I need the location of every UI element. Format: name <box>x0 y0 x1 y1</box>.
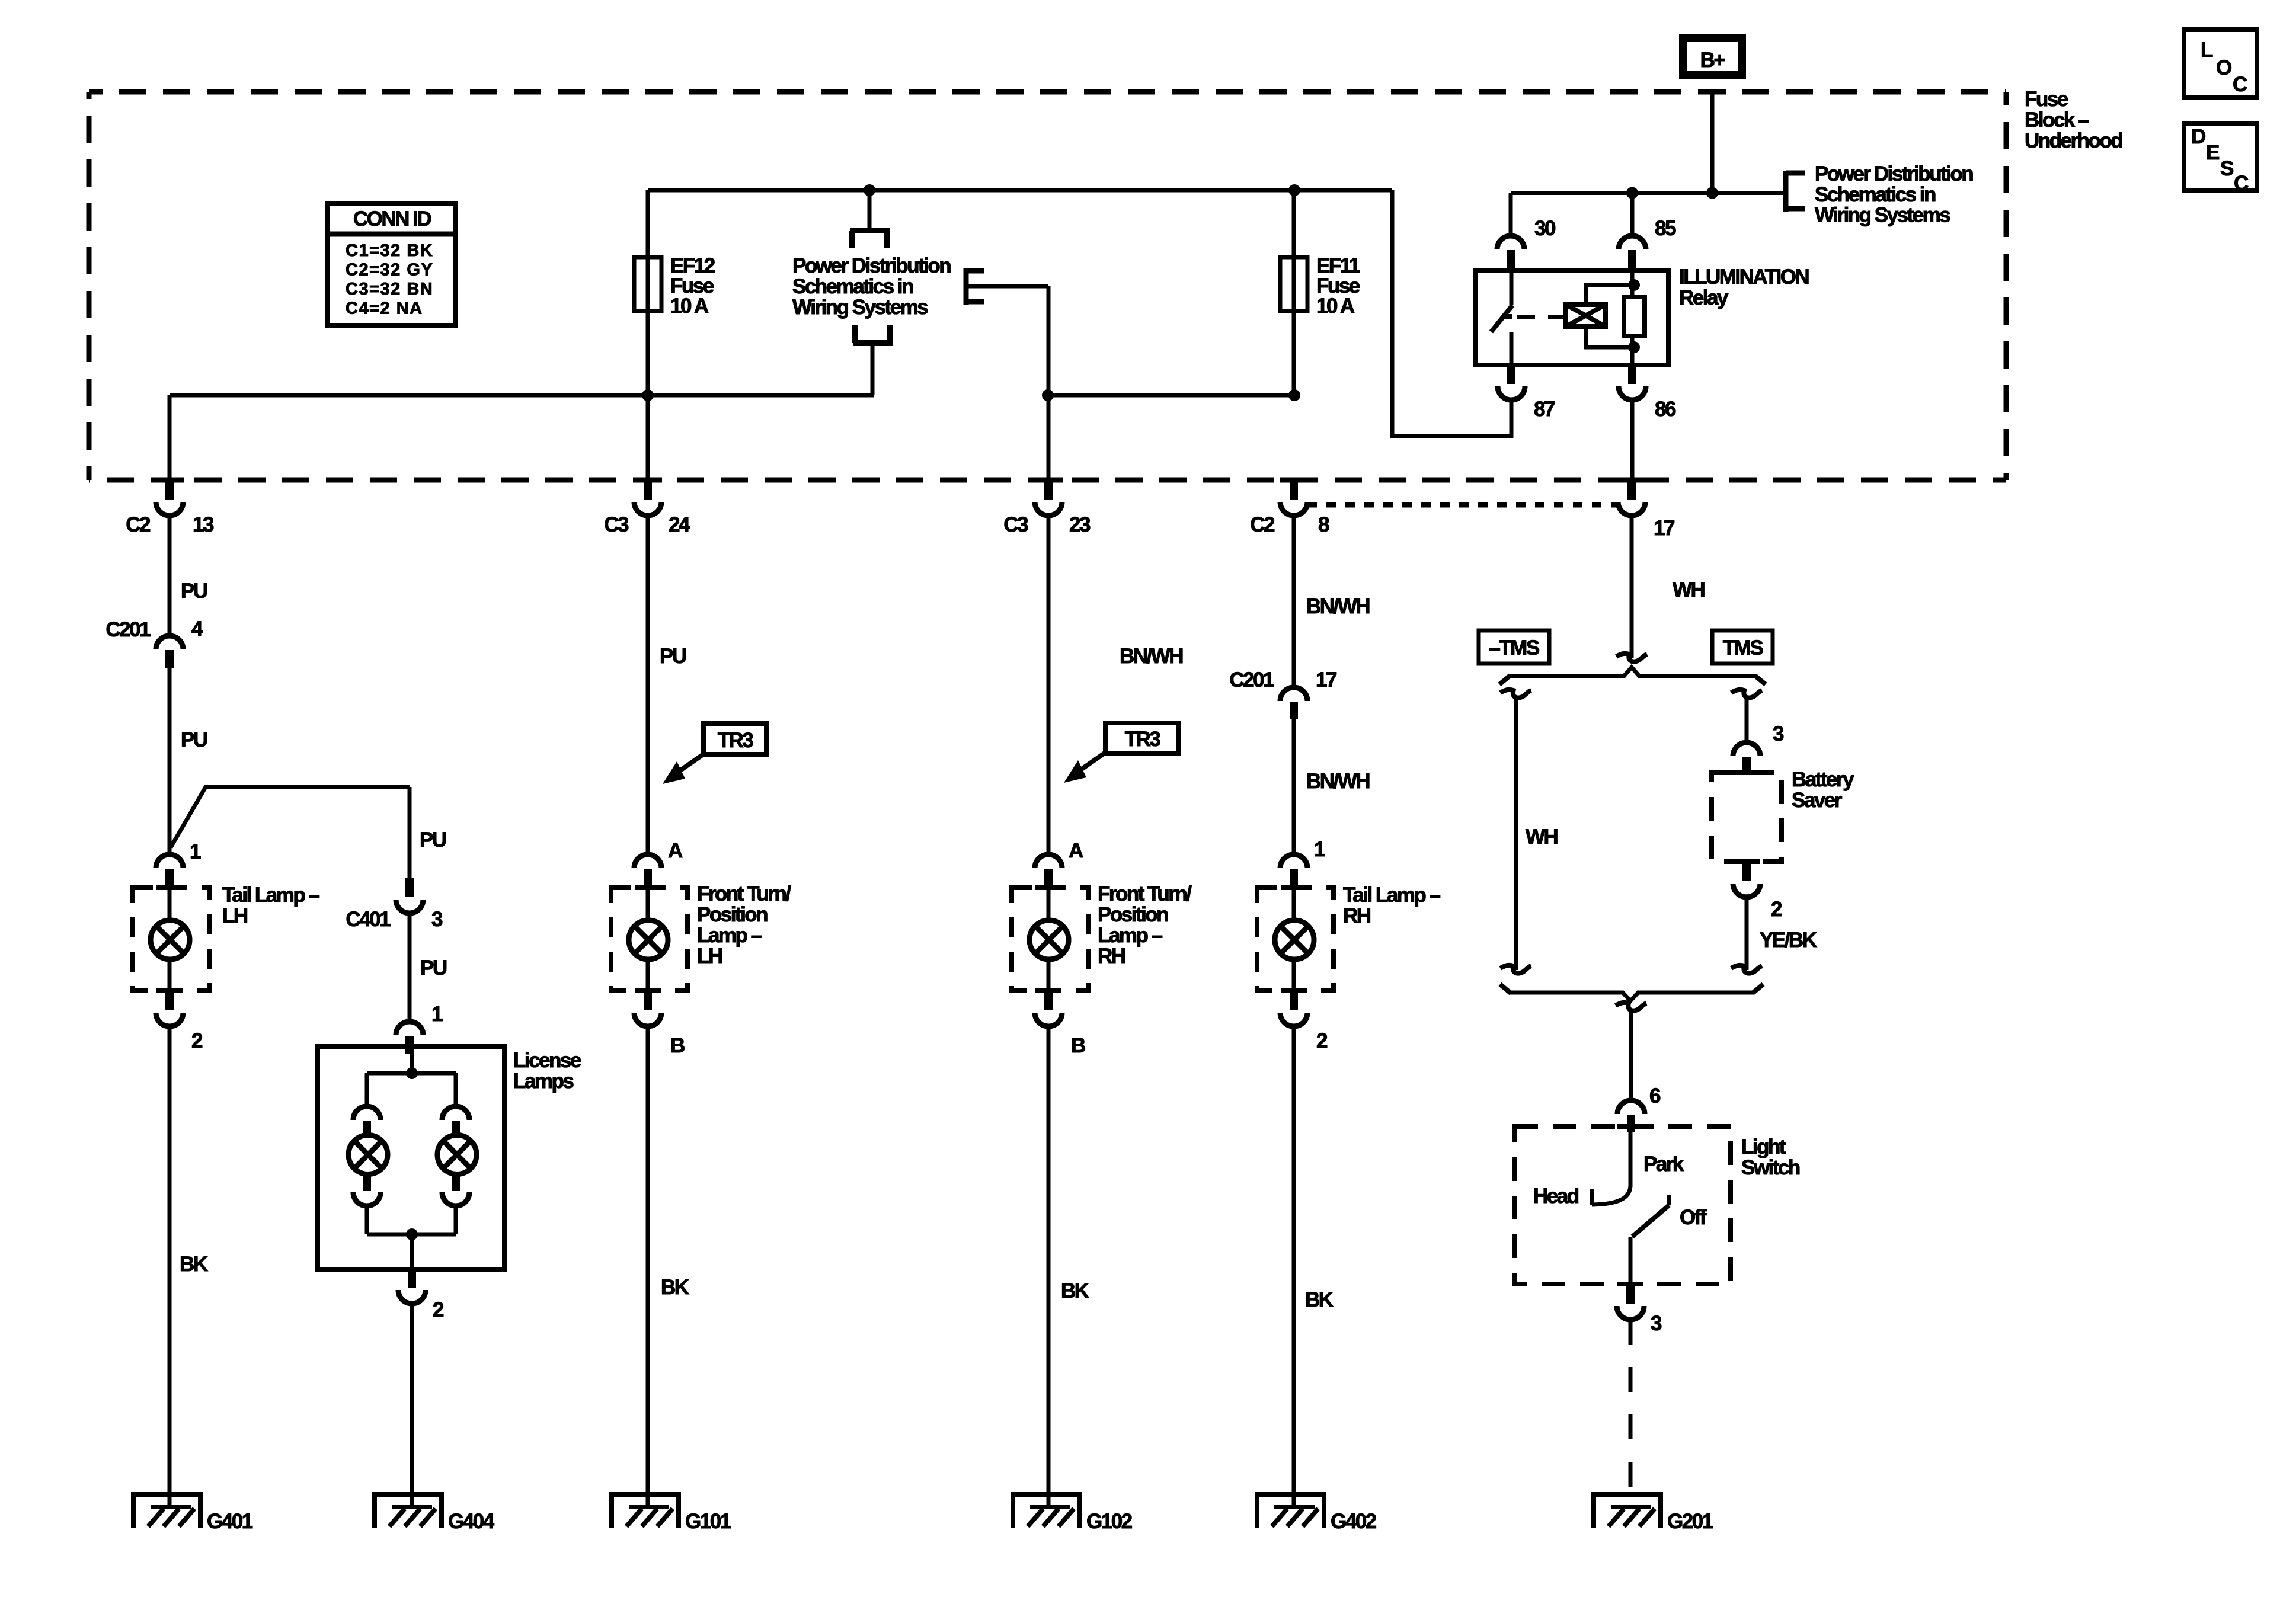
svg-text:Light: Light <box>1741 1135 1786 1158</box>
svg-text:LH: LH <box>697 945 722 968</box>
svg-text:Block –: Block – <box>2025 108 2089 132</box>
svg-text:G102: G102 <box>1086 1510 1133 1533</box>
svg-text:BK: BK <box>1305 1288 1334 1311</box>
svg-text:13: 13 <box>193 513 214 536</box>
svg-text:BN/WH: BN/WH <box>1306 595 1369 618</box>
svg-text:RH: RH <box>1343 904 1370 927</box>
svg-text:C1=32 BK: C1=32 BK <box>346 241 433 260</box>
svg-text:A: A <box>1069 839 1083 862</box>
svg-text:PU: PU <box>420 956 447 980</box>
svg-text:Front Turn/: Front Turn/ <box>1098 882 1192 905</box>
svg-text:PU: PU <box>420 828 446 852</box>
svg-text:C: C <box>2234 172 2249 195</box>
svg-text:86: 86 <box>1655 398 1676 421</box>
svg-text:B: B <box>670 1034 685 1057</box>
svg-text:Power Distribution: Power Distribution <box>792 254 951 277</box>
svg-text:2: 2 <box>1316 1029 1328 1052</box>
svg-text:G402: G402 <box>1331 1510 1377 1533</box>
svg-text:E: E <box>2206 141 2219 164</box>
svg-text:Power Distribution: Power Distribution <box>1815 162 1973 185</box>
svg-text:G101: G101 <box>685 1510 731 1533</box>
svg-text:TMS: TMS <box>1723 636 1763 660</box>
svg-text:D: D <box>2191 125 2205 148</box>
svg-text:10 A: 10 A <box>1316 295 1355 318</box>
svg-text:C2: C2 <box>126 513 151 536</box>
svg-text:Front Turn/: Front Turn/ <box>697 882 791 905</box>
svg-text:C201: C201 <box>1229 668 1274 692</box>
svg-text:Schematics in: Schematics in <box>792 275 913 298</box>
svg-text:Fuse: Fuse <box>2025 88 2068 111</box>
svg-text:85: 85 <box>1655 217 1676 240</box>
svg-text:WH: WH <box>1673 578 1705 601</box>
svg-text:6: 6 <box>1649 1084 1661 1108</box>
svg-text:WH: WH <box>1526 825 1558 849</box>
svg-text:2: 2 <box>1771 898 1782 921</box>
svg-text:BK: BK <box>180 1253 208 1276</box>
svg-text:BK: BK <box>1061 1279 1089 1302</box>
svg-text:A: A <box>668 839 683 862</box>
svg-text:S: S <box>2220 157 2233 180</box>
svg-text:C3=32 BN: C3=32 BN <box>346 280 433 299</box>
svg-text:C2=32 GY: C2=32 GY <box>346 261 433 280</box>
svg-text:–TMS: –TMS <box>1489 636 1539 660</box>
svg-text:G404: G404 <box>448 1510 495 1533</box>
svg-text:PU: PU <box>660 645 686 668</box>
svg-text:PU: PU <box>181 580 207 603</box>
svg-text:C2: C2 <box>1250 513 1275 536</box>
svg-text:BK: BK <box>661 1276 689 1299</box>
svg-text:YE/BK: YE/BK <box>1760 929 1817 952</box>
svg-text:Saver: Saver <box>1792 789 1843 812</box>
svg-text:C201: C201 <box>105 618 151 641</box>
svg-text:ILLUMINATION: ILLUMINATION <box>1679 265 1808 289</box>
svg-text:Tail Lamp –: Tail Lamp – <box>1343 884 1440 907</box>
svg-text:Off: Off <box>1680 1206 1707 1229</box>
svg-text:RH: RH <box>1098 945 1125 968</box>
svg-text:Switch: Switch <box>1741 1156 1800 1179</box>
svg-text:30: 30 <box>1534 217 1556 240</box>
svg-text:1: 1 <box>1314 838 1325 861</box>
svg-text:TR3: TR3 <box>1125 728 1161 751</box>
svg-text:C4=2 NA: C4=2 NA <box>346 299 423 318</box>
svg-text:BN/WH: BN/WH <box>1120 645 1182 668</box>
svg-text:17: 17 <box>1316 668 1336 692</box>
svg-text:87: 87 <box>1534 398 1555 421</box>
svg-text:24: 24 <box>669 513 690 536</box>
svg-text:CONN ID: CONN ID <box>353 207 431 231</box>
svg-text:BN/WH: BN/WH <box>1306 770 1369 793</box>
svg-text:3: 3 <box>431 908 443 931</box>
svg-text:3: 3 <box>1651 1312 1662 1335</box>
svg-text:1: 1 <box>190 840 201 863</box>
svg-text:17: 17 <box>1654 517 1674 540</box>
svg-text:G401: G401 <box>207 1510 253 1533</box>
svg-text:Lamps: Lamps <box>513 1070 574 1093</box>
svg-text:2: 2 <box>191 1029 203 1052</box>
svg-text:Wiring Systems: Wiring Systems <box>792 296 928 319</box>
svg-text:Schematics in: Schematics in <box>1815 183 1936 206</box>
svg-text:Relay: Relay <box>1679 286 1729 309</box>
svg-text:B+: B+ <box>1700 49 1726 72</box>
svg-text:B: B <box>1071 1034 1085 1057</box>
svg-text:3: 3 <box>1773 722 1784 745</box>
svg-text:Head: Head <box>1533 1185 1579 1208</box>
svg-text:C3: C3 <box>604 513 629 536</box>
svg-text:TR3: TR3 <box>718 729 754 752</box>
svg-text:C: C <box>2233 73 2247 96</box>
svg-text:C401: C401 <box>346 908 391 931</box>
svg-text:Position: Position <box>697 903 768 926</box>
svg-text:Park: Park <box>1643 1153 1684 1176</box>
svg-text:LH: LH <box>222 904 247 927</box>
svg-text:L: L <box>2201 39 2213 62</box>
svg-text:PU: PU <box>181 728 207 751</box>
svg-text:Underhood: Underhood <box>2025 129 2122 152</box>
svg-text:Wiring Systems: Wiring Systems <box>1815 204 1950 227</box>
svg-text:Position: Position <box>1098 903 1168 926</box>
svg-text:2: 2 <box>433 1298 444 1321</box>
svg-text:23: 23 <box>1069 513 1091 536</box>
svg-text:O: O <box>2216 56 2231 79</box>
svg-text:Tail Lamp –: Tail Lamp – <box>222 884 319 907</box>
svg-text:8: 8 <box>1318 513 1329 536</box>
svg-text:C3: C3 <box>1003 513 1028 536</box>
svg-text:1: 1 <box>431 1003 443 1026</box>
svg-text:G201: G201 <box>1667 1510 1713 1533</box>
svg-text:10 A: 10 A <box>670 295 709 318</box>
svg-text:Lamp –: Lamp – <box>1098 924 1163 947</box>
svg-text:License: License <box>513 1049 581 1072</box>
svg-text:Lamp –: Lamp – <box>697 924 762 947</box>
svg-text:Battery: Battery <box>1792 768 1854 791</box>
